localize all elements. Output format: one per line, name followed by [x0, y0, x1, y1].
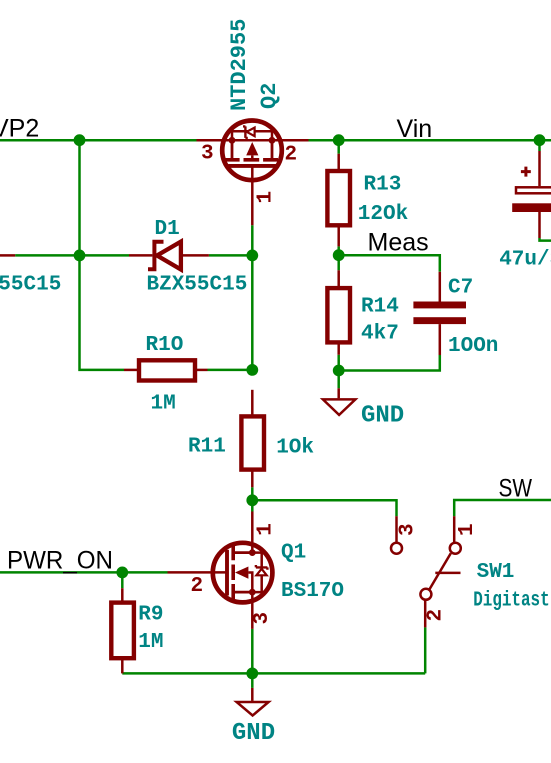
svg-text:3: 3 [251, 612, 274, 625]
Q1 circle body [213, 543, 273, 603]
wire VP2 top-left horizontal [0, 139, 197, 142]
junction at D1 row right [246, 250, 258, 262]
wire PWR_ON horizontal [0, 571, 168, 574]
junction at R10 right [246, 364, 258, 376]
svg-text:3: 3 [201, 142, 214, 165]
SW1 pin 1 circle [450, 543, 461, 554]
Q2 left dot [229, 137, 236, 144]
Q1 body diode triangle [256, 569, 266, 576]
svg-text:SW1: SW1 [477, 561, 515, 584]
switch SW1 [391, 516, 461, 627]
wire left vertical column with corner to R10 [80, 140, 125, 370]
Q2 body diode triangle [247, 128, 255, 137]
C8 plus sign [521, 167, 531, 177]
ground symbol below R14 [337, 388, 340, 398]
wire R13 bottom stub [337, 246, 340, 255]
transistor Q1 N-MOSFET BS170 [168, 512, 273, 629]
wire node to Q1 drain [251, 500, 254, 511]
SW1 lever [430, 553, 451, 589]
wire bottom horizontal [122, 672, 425, 675]
wire node to switch pin3 [252, 500, 396, 516]
R9 bottom pin [121, 658, 124, 673]
R9 top pin [121, 588, 124, 602]
junction at C8 top [534, 134, 546, 146]
svg-text:1: 1 [456, 523, 479, 536]
Q2 body diode cathode bar [243, 126, 248, 137]
svg-text:BZX55C15: BZX55C15 [147, 273, 248, 296]
R10 right pin [195, 369, 208, 372]
wire main GND stub [251, 673, 254, 688]
R10 left pin [124, 369, 139, 372]
Q2 gate stem [251, 166, 254, 225]
Q1 source dot [249, 589, 256, 596]
Q1 drain pin [251, 512, 254, 553]
Q2 right tap [271, 140, 274, 160]
Q2 arrow [246, 142, 258, 155]
svg-text:1OOn: 1OOn [448, 335, 498, 358]
diode D1 zener BZX55C15 [129, 242, 209, 270]
capacitor C7 [413, 272, 466, 355]
resistor R14 [327, 288, 350, 342]
svg-text:Digitast: Digitast [473, 589, 550, 612]
svg-text:R13: R13 [364, 174, 402, 197]
junction at Meas node [333, 249, 345, 261]
svg-text:Q2: Q2 [257, 83, 282, 109]
wire R11 bottom to node [251, 487, 254, 500]
svg-text:R9: R9 [138, 603, 163, 626]
junction at R11 bottom [246, 494, 258, 506]
Q2 pin 3 stub [197, 139, 223, 142]
R13 top pin [337, 154, 340, 171]
junction at R13 top [333, 134, 345, 146]
svg-text:2: 2 [191, 575, 204, 598]
svg-text:BS17O: BS17O [281, 580, 344, 603]
wire Meas row to C7 top [339, 255, 440, 272]
wire R14 GND stub [337, 371, 340, 389]
svg-text:1M: 1M [151, 393, 176, 416]
D1 pin left [129, 254, 152, 257]
SW1 actuator bar [435, 572, 460, 575]
junction at D1 row left [74, 250, 86, 262]
polarized capacitor C8 47u [512, 151, 551, 238]
Q1 source pin [251, 592, 254, 629]
svg-text:4k7: 4k7 [361, 323, 399, 346]
wire D1 row right green [209, 254, 252, 257]
wire Vin top-right horizontal [309, 139, 551, 142]
Q1 arrow [235, 567, 248, 579]
R14 top pin [337, 270, 340, 288]
SW1 pin 3 circle [391, 543, 402, 554]
Q1 gate pin line [168, 571, 228, 574]
wire R14 bottom stub [337, 355, 340, 371]
junction at bottom wire [246, 668, 258, 680]
Q1 body diode path [252, 553, 261, 593]
D1 triangle [157, 242, 181, 270]
svg-text:VP2: VP2 [0, 115, 39, 143]
Q1 drain dot [249, 549, 256, 556]
Q1 drain tap [233, 551, 252, 554]
R13 bottom pin [337, 225, 340, 246]
wire Q2 gate to D1 node [251, 225, 254, 255]
Q2 source-drain row line [197, 139, 309, 142]
wire R10 right to center node [208, 369, 253, 372]
resistor R9 [111, 603, 134, 659]
C7 top plate [413, 302, 466, 309]
pin stub of off-sheet diode D2 left edge [0, 254, 15, 257]
C7 bottom pin [439, 324, 442, 355]
svg-text:C7: C7 [448, 276, 473, 299]
junction at VP2 column top [74, 134, 86, 146]
Q2 channel bars [223, 158, 278, 162]
wire C8 bottom corner [540, 238, 551, 241]
wire R14 top stub [337, 255, 340, 270]
Q1 arrow stem [248, 573, 252, 593]
svg-text:Vin: Vin [397, 115, 433, 143]
R11 bottom pin [251, 470, 254, 488]
wire switch pin2 down to bottom wire [424, 627, 427, 673]
Q2 pin 2 stub [282, 139, 309, 142]
Q2 left tap [231, 140, 234, 160]
Q1 source tap [233, 591, 252, 594]
C8 bottom pin [538, 212, 541, 238]
svg-text:NTD2955: NTD2955 [227, 19, 252, 111]
svg-text:GND: GND [361, 402, 404, 429]
svg-text:1Ok: 1Ok [276, 437, 314, 460]
svg-text:R1O: R1O [146, 334, 184, 357]
Q2 arrow stem [251, 155, 254, 159]
Q2 body diode path [232, 131, 272, 140]
svg-text:1: 1 [254, 191, 277, 204]
svg-text:2: 2 [285, 143, 298, 166]
junction at R14 bottom [333, 365, 345, 377]
SW1 pin 2 line [424, 600, 427, 627]
Q1 gate bar [225, 550, 229, 596]
svg-text:2: 2 [425, 609, 448, 622]
wire Q1 source to bottom node [251, 629, 254, 674]
Q2 gate bar [228, 164, 277, 168]
Q1 channel bars [231, 545, 235, 600]
D1 pin right [183, 254, 209, 257]
svg-text:SW: SW [499, 475, 533, 503]
svg-text:BZX55C15: BZX55C15 [0, 273, 61, 296]
wire C8 top stub [538, 140, 541, 151]
svg-text:Meas: Meas [368, 229, 429, 257]
SW1 pin 2 circle [420, 589, 431, 600]
transistor Q2 P-MOSFET [197, 121, 309, 226]
svg-text:Q1: Q1 [281, 542, 306, 565]
svg-text:1M: 1M [138, 631, 163, 654]
wire R13 top stub [337, 140, 340, 154]
resistor R13 [327, 171, 350, 225]
svg-text:R14: R14 [361, 295, 399, 318]
SW1 pin 3 line [395, 516, 398, 542]
svg-text:GND: GND [232, 720, 275, 747]
svg-text:1: 1 [254, 523, 277, 536]
Q2 right dot [269, 137, 276, 144]
svg-text:R11: R11 [188, 435, 226, 458]
resistor R10 [139, 360, 195, 380]
C8 top pin [538, 151, 541, 186]
D1 cathode zener bar [148, 242, 164, 269]
Q2 circle body [222, 121, 282, 181]
C7 bottom plate [413, 317, 466, 324]
wire center vertical D1 node to R10 node [251, 255, 254, 370]
svg-text:12Ok: 12Ok [358, 203, 408, 226]
wire D1 row left green [15, 254, 129, 257]
R11 top pin [251, 390, 254, 417]
svg-text:PWR_ON: PWR_ON [7, 546, 113, 574]
svg-text:47u/35V: 47u/35V [499, 249, 551, 272]
resistor R11 [241, 416, 264, 469]
C8 top plate outline [516, 187, 551, 193]
junction at PWR_ON R9 [116, 567, 128, 579]
svg-text:D1: D1 [155, 218, 180, 241]
ground symbol at bottom [251, 688, 254, 701]
wire C7 bottom to R14 bottom node [339, 355, 440, 371]
wire SW label to switch pin1 [454, 500, 551, 516]
SW1 pin 1 line [453, 516, 456, 542]
Q1 body diode cathode bar [256, 565, 268, 570]
R14 bottom pin [337, 342, 340, 354]
C7 top pin [439, 272, 442, 302]
svg-text:3: 3 [397, 523, 420, 536]
C8 bottom plate [512, 203, 551, 212]
wire R9 top stub [121, 572, 124, 588]
